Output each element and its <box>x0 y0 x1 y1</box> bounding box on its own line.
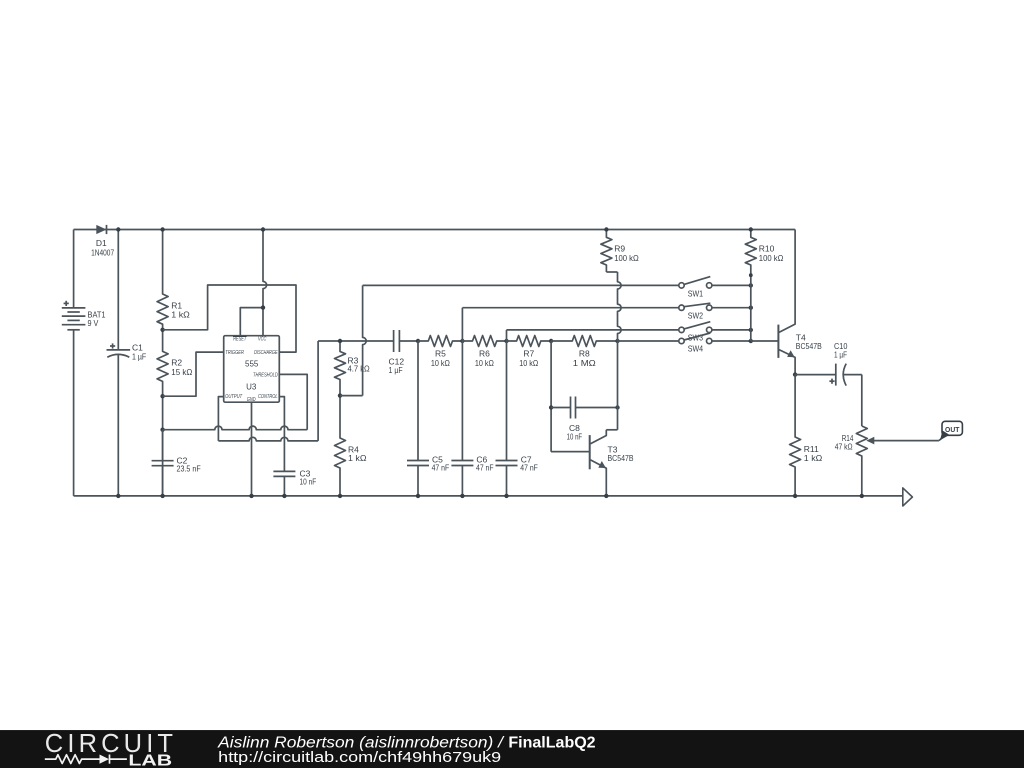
capacitor C2 23.5 nF <box>152 430 201 496</box>
svg-text:15 kΩ: 15 kΩ <box>171 367 192 377</box>
capacitor C1 1 uF (polarized) <box>107 230 147 496</box>
wire bottom ground rail <box>74 495 903 497</box>
switch SW3 <box>679 322 751 343</box>
node R1/R2 junction <box>160 328 164 332</box>
node R3/R4 junction <box>338 393 342 397</box>
capacitor C8 10 nF <box>551 397 617 442</box>
svg-text:SW1: SW1 <box>688 288 704 298</box>
node C8 left junction <box>549 405 553 409</box>
node main row / C8 column <box>549 339 553 343</box>
transistor T3 BC547B <box>551 430 634 496</box>
svg-text:1N4007: 1N4007 <box>91 247 114 257</box>
node bottom rail / C6 <box>460 494 464 498</box>
svg-text:1 MΩ: 1 MΩ <box>573 358 596 368</box>
wire R9 column with hops <box>618 272 622 430</box>
svg-text:BC547B: BC547B <box>608 453 634 463</box>
resistor R2 15k <box>157 330 192 396</box>
node main row / R3 <box>338 339 342 343</box>
diode D1 1N4007 <box>91 225 114 258</box>
wire row2 to SW2 <box>462 307 679 309</box>
capacitor C3 10 nF <box>273 430 316 496</box>
wire battery column <box>73 230 75 496</box>
node top rail / R10 <box>749 227 753 231</box>
battery BAT1 9V <box>62 301 106 330</box>
wire TRIGGER to R2 bottom <box>163 352 224 396</box>
svg-text:47 nF: 47 nF <box>432 463 450 473</box>
node T4 emitter junction <box>793 372 797 376</box>
svg-text:23.5 nF: 23.5 nF <box>177 464 201 474</box>
wire RESET feed <box>240 308 263 336</box>
svg-text:FinalLabQ2: FinalLabQ2 <box>508 734 595 751</box>
node top rail / VCC feed <box>261 227 265 231</box>
node bottom rail / C5 <box>416 494 420 498</box>
capacitor C12 1 uF <box>389 330 419 375</box>
wire CONTROL to C3 <box>279 397 284 430</box>
wire C8 left column <box>551 341 589 452</box>
svg-text:OUTPUT: OUTPUT <box>225 394 242 400</box>
potentiometer R14 47k <box>835 375 945 496</box>
wire R3 column top <box>0 0 1 1</box>
svg-text:10 kΩ: 10 kΩ <box>519 358 538 368</box>
svg-text:1 µF: 1 µF <box>389 365 403 375</box>
node threshold column junction <box>160 428 164 432</box>
capacitor C10 1 uF (polarized) <box>795 341 862 386</box>
wire OUTPUT net with hops <box>218 341 318 441</box>
wire R9 jog <box>606 271 617 273</box>
svg-text:1 kΩ: 1 kΩ <box>348 453 367 463</box>
node bottom rail / R11 <box>793 494 797 498</box>
wire R1 column <box>0 0 1 1</box>
node SW column / SW3 <box>749 328 753 332</box>
wire row2 riser <box>461 308 463 341</box>
svg-text:BC547B: BC547B <box>796 341 822 351</box>
svg-text:100 kΩ: 100 kΩ <box>614 253 639 263</box>
svg-text:47 nF: 47 nF <box>476 463 494 473</box>
wire SW output column <box>750 275 752 341</box>
svg-text:SW2: SW2 <box>688 311 704 321</box>
footer url line <box>218 749 501 766</box>
port OUT flag <box>940 421 962 440</box>
wire row1 to SW1 <box>363 284 679 286</box>
wire main row left segment <box>318 340 393 342</box>
svg-text:47 nF: 47 nF <box>520 463 538 473</box>
capacitor C7 47 nF <box>496 341 538 496</box>
resistor R11 1k <box>790 375 823 496</box>
resistor R3 4.7k <box>335 341 370 396</box>
wire main row to SW4 <box>618 340 679 342</box>
svg-text:100 kΩ: 100 kΩ <box>759 253 784 263</box>
resistor R10 100k <box>745 230 783 276</box>
resistor R1 1k <box>157 230 190 330</box>
transistor T4 BC547B <box>778 230 822 375</box>
wire row1 riser with hop <box>340 285 366 395</box>
node bottom rail / T3 emitter <box>604 494 608 498</box>
node main row / C6 column <box>460 339 464 343</box>
capacitor C5 47 nF <box>407 341 449 496</box>
node bottom rail / GND <box>249 494 253 498</box>
svg-text:U3: U3 <box>246 383 257 392</box>
svg-text:10 kΩ: 10 kΩ <box>431 358 450 368</box>
svg-text:CONTROL: CONTROL <box>258 394 278 400</box>
footer credit line <box>217 734 596 751</box>
wire GND pin to ground <box>251 402 253 496</box>
svg-text:4.7 kΩ: 4.7 kΩ <box>348 364 370 374</box>
switch SW1 <box>679 277 751 299</box>
node bottom rail / R14 <box>860 494 864 498</box>
svg-text:OUT: OUT <box>945 425 960 434</box>
resistor R9 100k <box>601 230 639 273</box>
node R10 bottom pin <box>749 273 753 277</box>
svg-text:GND: GND <box>247 397 256 403</box>
footer bar <box>0 730 1024 768</box>
node main row / C7 column <box>504 339 508 343</box>
node bottom rail / C3 <box>282 494 286 498</box>
svg-text:1 µF: 1 µF <box>132 352 146 362</box>
svg-text:THRESHOLD: THRESHOLD <box>253 372 278 378</box>
capacitor C6 47 nF <box>451 341 493 496</box>
node SW column / SW2 <box>749 306 753 310</box>
node main row / C5 column <box>416 339 420 343</box>
node C8 right junction <box>615 405 619 409</box>
svg-text:RESET: RESET <box>233 337 246 343</box>
node top rail / R9 <box>604 227 608 231</box>
resistor R8 1M <box>551 336 617 368</box>
op-amp timer U3 555 box <box>224 336 280 403</box>
switch SW2 <box>679 303 751 320</box>
wire row3 riser <box>506 330 508 341</box>
resistor R4 1k <box>335 396 367 496</box>
node R2/trigger junction <box>160 394 164 398</box>
node VCC/RESET junction <box>261 305 265 309</box>
svg-text:TRIGGER: TRIGGER <box>225 350 244 356</box>
node SW column / SW1 <box>749 283 753 287</box>
node bottom rail / C1 <box>116 494 120 498</box>
wire top supply rail <box>74 229 796 231</box>
CircuitLab logo <box>45 730 173 768</box>
switch SW4 <box>679 333 751 353</box>
svg-text:10 nF: 10 nF <box>300 477 317 487</box>
svg-text:LAB: LAB <box>128 753 172 768</box>
svg-text:http://circuitlab.com/chf49hh6: http://circuitlab.com/chf49hh679uk9 <box>218 749 501 766</box>
svg-text:1 kΩ: 1 kΩ <box>171 310 190 320</box>
svg-text:47 kΩ: 47 kΩ <box>835 442 853 452</box>
wire R2 bottom to C2 <box>162 396 164 496</box>
node main row / R9 column <box>615 339 619 343</box>
node SW column / SW4 <box>749 339 753 343</box>
node bottom rail / R4 <box>338 494 342 498</box>
node top rail / R1 <box>160 227 164 231</box>
wire R1R2 junction to DISCHARGE <box>163 285 296 352</box>
wire row3 to SW3 <box>507 329 679 331</box>
svg-text:1 kΩ: 1 kΩ <box>804 453 823 463</box>
svg-text:DISCHARGE: DISCHARGE <box>254 350 278 356</box>
wire VCC feed with hop <box>263 230 267 336</box>
node bottom rail / C2 <box>160 494 164 498</box>
wire SW column to T4 base <box>751 340 778 342</box>
node bottom rail / C7 <box>504 494 508 498</box>
svg-text:1 µF: 1 µF <box>834 350 847 360</box>
resistor R7 10k <box>507 336 552 368</box>
wire THRESHOLD net with hops <box>163 374 308 429</box>
resistor R5 10k <box>418 336 462 368</box>
svg-text:10 nF: 10 nF <box>567 431 583 441</box>
svg-text:9 V: 9 V <box>88 318 99 328</box>
ground rail end arrow <box>903 488 913 506</box>
resistor R6 10k <box>462 336 506 368</box>
node top rail / C1 <box>116 227 120 231</box>
svg-text:555: 555 <box>245 360 259 369</box>
wire T3 collector jog <box>606 429 617 431</box>
svg-text:10 kΩ: 10 kΩ <box>475 358 494 368</box>
svg-text:VCC: VCC <box>258 337 267 343</box>
svg-text:SW4: SW4 <box>688 343 704 353</box>
